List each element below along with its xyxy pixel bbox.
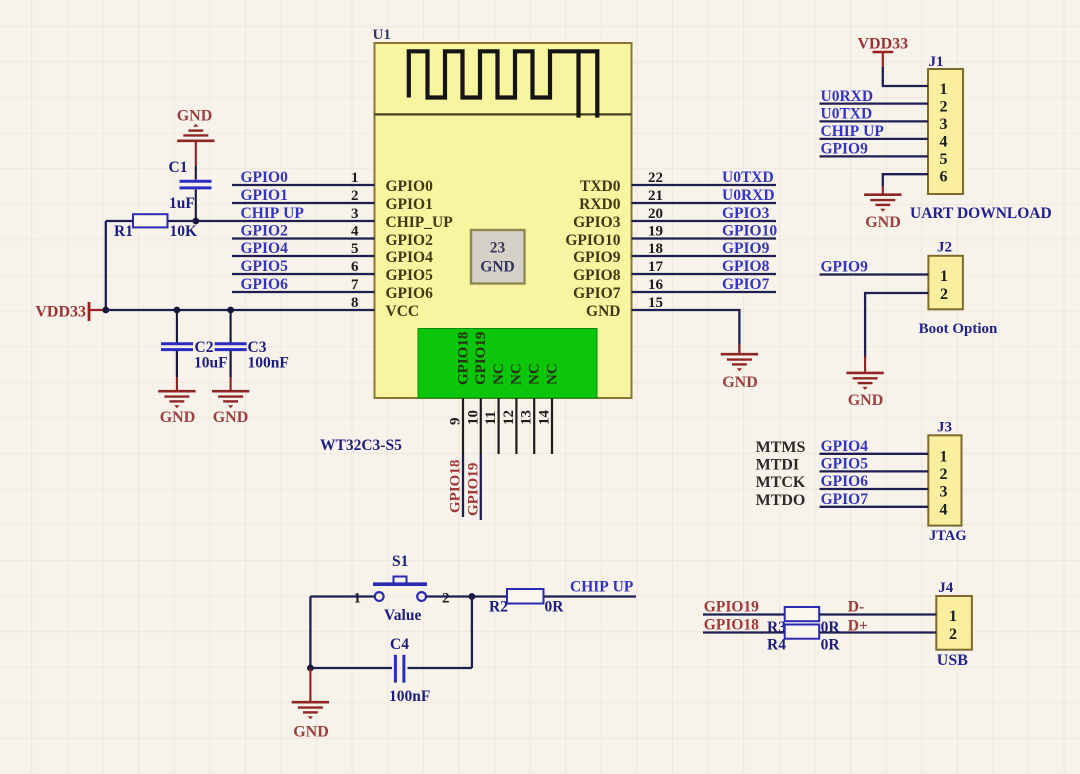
svg-text:2: 2 — [940, 466, 948, 483]
svg-text:J4: J4 — [938, 580, 954, 596]
svg-text:MTDO: MTDO — [756, 492, 806, 509]
connector J2 Boot Option — [928, 240, 963, 310]
wire junction down to C4 — [471, 597, 473, 669]
svg-text:1: 1 — [940, 449, 948, 466]
wire GPIO5 to J3 pin2 — [820, 470, 929, 472]
svg-text:RXD0: RXD0 — [579, 196, 621, 213]
svg-text:17: 17 — [648, 259, 664, 275]
svg-text:GPIO7: GPIO7 — [573, 285, 621, 302]
svg-text:GPIO19: GPIO19 — [473, 332, 489, 385]
svg-text:12: 12 — [501, 410, 517, 425]
svg-text:11: 11 — [483, 411, 499, 425]
svg-text:1: 1 — [351, 170, 359, 186]
svg-text:NC: NC — [509, 363, 525, 385]
resistor R1 — [106, 214, 197, 240]
svg-text:GPIO2: GPIO2 — [386, 232, 434, 249]
svg-text:R4: R4 — [767, 637, 786, 654]
wire S1 pin1 left — [310, 595, 374, 597]
svg-text:U1: U1 — [373, 27, 391, 43]
svg-text:VCC: VCC — [386, 303, 420, 320]
wire R4 to J4 pin2 (D+) — [819, 631, 936, 633]
wire pin10 net GPIO19 — [480, 454, 482, 520]
wire VDD33 to J1 pin1 — [883, 67, 928, 86]
svg-text:GND: GND — [480, 259, 514, 276]
svg-text:5: 5 — [940, 151, 948, 168]
wire GPIO19 to R3 — [703, 613, 785, 615]
svg-text:2: 2 — [940, 99, 948, 116]
svg-text:GND: GND — [177, 108, 213, 125]
svg-text:2: 2 — [949, 626, 957, 643]
svg-text:6: 6 — [351, 259, 359, 275]
svg-text:5: 5 — [351, 241, 359, 257]
capacitor C2 — [161, 310, 228, 390]
svg-text:JTAG: JTAG — [929, 528, 967, 544]
svg-text:GPIO6: GPIO6 — [241, 276, 289, 293]
wire GPIO4 to pin5 — [232, 255, 375, 257]
wire pin9 net GPIO18 — [462, 454, 464, 517]
svg-text:USB: USB — [937, 652, 968, 669]
wire left branch down — [309, 597, 311, 669]
svg-text:GPIO8: GPIO8 — [573, 267, 621, 284]
svg-text:UART DOWNLOAD: UART DOWNLOAD — [910, 205, 1052, 222]
svg-text:GPIO18: GPIO18 — [448, 460, 464, 513]
connector J4 USB — [936, 580, 972, 650]
resistor R4 — [767, 625, 840, 654]
svg-text:GPIO19: GPIO19 — [465, 463, 481, 516]
capacitor C1 — [169, 159, 212, 221]
svg-text:2: 2 — [940, 286, 948, 303]
svg-text:GND: GND — [848, 392, 884, 409]
svg-text:GPIO9: GPIO9 — [722, 240, 770, 257]
svg-text:GPIO5: GPIO5 — [241, 258, 289, 275]
svg-text:GPIO1: GPIO1 — [386, 196, 433, 213]
svg-text:U0TXD: U0TXD — [821, 106, 873, 123]
svg-text:18: 18 — [648, 241, 663, 257]
pin stub 10 — [480, 398, 482, 454]
switch S1 — [354, 553, 450, 624]
svg-text:GPIO9: GPIO9 — [573, 249, 621, 266]
svg-text:U0TXD: U0TXD — [722, 169, 774, 186]
svg-text:GPIO9: GPIO9 — [821, 141, 869, 158]
svg-text:R1: R1 — [114, 223, 133, 240]
svg-text:VDD33: VDD33 — [35, 304, 86, 321]
svg-text:GPIO7: GPIO7 — [722, 276, 770, 293]
svg-text:2: 2 — [351, 188, 359, 204]
svg-text:10K: 10K — [170, 223, 198, 240]
wire U0RXD to J1 pin2 — [820, 102, 929, 104]
wire pin15 to gnd — [632, 310, 740, 352]
chip U1 body — [375, 43, 632, 398]
wire pin18 to GPIO9 — [632, 255, 777, 257]
svg-text:GND: GND — [722, 374, 758, 391]
svg-text:GPIO18: GPIO18 — [456, 332, 472, 385]
svg-text:U0RXD: U0RXD — [722, 187, 775, 204]
svg-text:1uF: 1uF — [169, 195, 195, 212]
svg-text:NC: NC — [527, 363, 543, 385]
svg-text:MTDI: MTDI — [756, 456, 800, 473]
svg-text:3: 3 — [940, 484, 948, 501]
svg-text:CHIP UP: CHIP UP — [821, 123, 885, 140]
svg-text:14: 14 — [537, 410, 553, 426]
junction C3 — [227, 307, 234, 314]
junction S1/C4/R2 — [469, 593, 476, 600]
svg-text:GPIO19: GPIO19 — [704, 599, 759, 616]
resistor R3 — [767, 607, 840, 636]
pin stub 13 — [533, 398, 535, 454]
capacitor C3 — [215, 310, 289, 390]
svg-text:3: 3 — [351, 206, 359, 222]
svg-text:GPIO4: GPIO4 — [386, 249, 434, 266]
wire bottom horizontal through C4 — [310, 667, 472, 669]
junction C2 — [174, 307, 181, 314]
wire pin16 to GPIO7 — [632, 291, 777, 293]
svg-text:GPIO6: GPIO6 — [821, 473, 869, 490]
svg-text:CHIP UP: CHIP UP — [570, 579, 634, 596]
svg-text:GND: GND — [865, 214, 901, 231]
svg-text:GPIO1: GPIO1 — [241, 187, 288, 204]
svg-text:6: 6 — [940, 169, 948, 186]
svg-text:100nF: 100nF — [389, 688, 430, 705]
svg-text:23: 23 — [490, 240, 506, 257]
svg-text:3: 3 — [940, 116, 948, 133]
svg-text:13: 13 — [519, 410, 535, 425]
power port VDD33 — [35, 302, 105, 321]
svg-text:Boot Option: Boot Option — [919, 321, 998, 337]
svg-text:16: 16 — [648, 277, 664, 293]
svg-text:GPIO5: GPIO5 — [821, 456, 869, 473]
svg-text:J2: J2 — [937, 240, 952, 256]
wire GPIO5 to pin6 — [232, 273, 375, 275]
svg-text:NC: NC — [491, 363, 507, 385]
gnd at pin15 — [721, 344, 758, 391]
svg-text:4: 4 — [940, 134, 948, 151]
svg-text:7: 7 — [351, 277, 359, 293]
svg-text:100nF: 100nF — [248, 355, 289, 372]
svg-text:2: 2 — [442, 591, 450, 607]
wire pin21 to U0RXD — [632, 202, 777, 204]
svg-text:TXD0: TXD0 — [580, 178, 621, 195]
wire U0TXD to J1 pin3 — [820, 120, 929, 122]
svg-text:GPIO5: GPIO5 — [386, 267, 434, 284]
svg-text:CHIP_UP: CHIP_UP — [386, 214, 454, 231]
pin stub 14 — [551, 398, 553, 454]
svg-text:GPIO2: GPIO2 — [241, 223, 289, 240]
svg-text:J3: J3 — [937, 420, 952, 436]
svg-text:J1: J1 — [929, 54, 944, 70]
svg-text:0R: 0R — [545, 599, 565, 616]
wire VDD rail to pin8 — [106, 309, 375, 311]
connector J3 JTAG — [928, 420, 961, 526]
svg-text:GPIO7: GPIO7 — [821, 491, 869, 508]
wire R1 down to VDD rail — [105, 221, 107, 310]
gnd below S1 — [292, 702, 329, 740]
svg-text:Value: Value — [384, 607, 421, 624]
svg-text:1: 1 — [940, 81, 948, 98]
svg-text:20: 20 — [648, 206, 663, 222]
svg-text:GPIO18: GPIO18 — [704, 617, 759, 634]
wire GPIO4 to J3 pin1 — [820, 453, 929, 455]
svg-text:4: 4 — [940, 502, 948, 519]
svg-text:C4: C4 — [390, 636, 409, 653]
svg-text:GND: GND — [213, 409, 249, 426]
pin stub 11 — [498, 398, 500, 454]
svg-text:CHIP UP: CHIP UP — [241, 205, 305, 222]
wire pin20 to GPIO3 — [632, 220, 777, 222]
pin stub 12 — [515, 398, 517, 454]
gnd below C3 — [212, 391, 249, 426]
svg-text:GPIO10: GPIO10 — [722, 223, 777, 240]
svg-text:MTMS: MTMS — [756, 439, 806, 456]
junction at gnd branch — [307, 665, 314, 672]
wire to gnd S1 — [309, 668, 311, 701]
gnd below C2 — [158, 391, 195, 426]
svg-text:GPIO3: GPIO3 — [573, 214, 621, 231]
svg-text:19: 19 — [648, 224, 663, 240]
svg-text:C1: C1 — [169, 159, 188, 176]
svg-text:S1: S1 — [392, 553, 408, 570]
power VDD33 above J1 — [857, 36, 908, 68]
svg-text:WT32C3-S5: WT32C3-S5 — [320, 437, 402, 454]
wire GPIO2 to pin4 — [232, 237, 375, 239]
svg-text:10uF: 10uF — [194, 355, 228, 372]
wire J2 pin2 to gnd — [865, 293, 928, 358]
resistor R2 — [489, 589, 564, 616]
svg-text:U0RXD: U0RXD — [821, 88, 874, 105]
wire GPIO18 to R4 — [703, 631, 785, 633]
svg-text:GPIO6: GPIO6 — [386, 285, 434, 302]
svg-text:8: 8 — [351, 295, 359, 311]
wire J1 pin6 to gnd — [883, 174, 928, 186]
svg-text:22: 22 — [648, 170, 663, 186]
svg-text:GND: GND — [293, 724, 329, 741]
junction VDD33/R1 — [102, 307, 109, 314]
svg-text:VDD33: VDD33 — [857, 36, 908, 53]
wire pin17 to GPIO8 — [632, 273, 777, 275]
svg-text:MTCK: MTCK — [756, 474, 806, 491]
wire GPIO6 to J3 pin3 — [820, 488, 929, 490]
connector J1 UART DOWNLOAD — [928, 54, 963, 194]
svg-text:21: 21 — [648, 188, 663, 204]
wire GPIO9 to J2 pin1 — [820, 273, 929, 275]
svg-text:0R: 0R — [821, 637, 841, 654]
svg-text:15: 15 — [648, 295, 663, 311]
svg-text:GND: GND — [160, 409, 196, 426]
svg-text:1: 1 — [354, 591, 362, 607]
svg-text:10: 10 — [465, 410, 481, 425]
svg-text:GPIO0: GPIO0 — [386, 178, 434, 195]
svg-text:C3: C3 — [248, 339, 267, 356]
pin stub 9 — [462, 398, 464, 454]
svg-text:GPIO10: GPIO10 — [565, 232, 620, 249]
junction at C1/R1/pin3 — [192, 218, 199, 225]
svg-text:GPIO9: GPIO9 — [821, 259, 869, 276]
wire R3 to J4 pin1 (D-) — [819, 613, 936, 615]
svg-text:R2: R2 — [489, 599, 508, 616]
svg-text:GPIO4: GPIO4 — [821, 438, 869, 455]
wire GPIO7 to J3 pin4 — [820, 506, 929, 508]
svg-text:D+: D+ — [848, 618, 868, 635]
green pad block of U1 — [418, 329, 597, 399]
gnd at J1 — [864, 186, 901, 231]
svg-text:1: 1 — [940, 268, 948, 285]
svg-text:GPIO0: GPIO0 — [241, 169, 289, 186]
svg-text:D-: D- — [848, 599, 864, 616]
wire R2 to CHIP UP — [544, 595, 637, 597]
pad 23 GND box — [471, 230, 525, 284]
svg-text:9: 9 — [448, 418, 464, 426]
wire GPIO6 to pin7 — [232, 291, 375, 293]
svg-text:1: 1 — [949, 608, 957, 625]
wire GPIO9 to J1 pin5 — [820, 155, 929, 157]
antenna meander of U1 — [409, 51, 598, 117]
svg-text:GND: GND — [586, 303, 620, 320]
wire GPIO1 to pin2 — [232, 202, 375, 204]
svg-text:GPIO8: GPIO8 — [722, 258, 770, 275]
gnd at J2 — [846, 356, 883, 409]
svg-text:GPIO3: GPIO3 — [722, 205, 770, 222]
wire CHIP UP to J1 pin4 — [820, 138, 929, 140]
svg-text:NC: NC — [545, 363, 561, 385]
wire pin19 to GPIO10 — [632, 237, 777, 239]
wire GPIO0 to pin1 — [232, 184, 375, 186]
wire CHIP_UP to pin3 — [196, 220, 375, 222]
capacitor C4 — [389, 636, 430, 705]
wire pin22 to U0TXD — [632, 184, 777, 186]
svg-text:GPIO4: GPIO4 — [241, 240, 289, 257]
svg-text:C2: C2 — [195, 339, 214, 356]
power GND above C1 — [177, 108, 215, 167]
svg-text:4: 4 — [351, 224, 359, 240]
wire S1 pin2 to junction — [426, 595, 507, 597]
